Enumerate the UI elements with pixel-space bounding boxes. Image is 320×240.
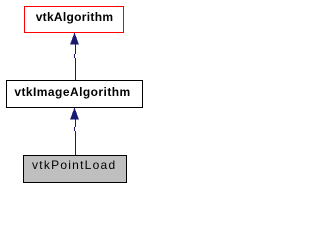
node vtkAlgorithm (red-bordered base class box) <box>25 7 124 33</box>
svg-text:vtkPointLoad: vtkPointLoad <box>32 158 116 172</box>
svg-text:vtkImageAlgorithm: vtkImageAlgorithm <box>14 85 130 99</box>
node vtkImageAlgorithm (black-bordered class box) <box>7 81 143 108</box>
svg-text:vtkAlgorithm: vtkAlgorithm <box>36 10 114 24</box>
inheritance arrow vtkPointLoad to vtkImageAlgorithm <box>70 107 79 155</box>
inheritance arrow vtkImageAlgorithm to vtkAlgorithm <box>70 32 79 80</box>
node vtkPointLoad (current class, grey filled box) <box>24 156 127 183</box>
